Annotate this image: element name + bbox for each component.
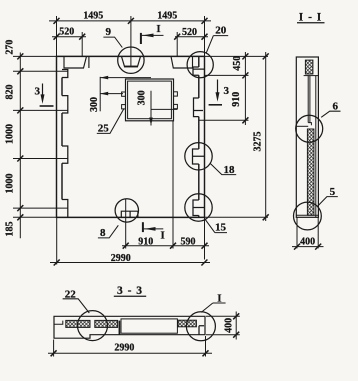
svg-text:8: 8 xyxy=(100,227,106,239)
svg-text:3275: 3275 xyxy=(252,132,263,152)
svg-text:I: I xyxy=(217,292,221,304)
svg-text:15: 15 xyxy=(215,222,227,234)
svg-text:2990: 2990 xyxy=(111,253,131,264)
svg-text:270: 270 xyxy=(5,40,16,55)
svg-text:400: 400 xyxy=(300,237,315,248)
svg-text:2990: 2990 xyxy=(114,343,134,354)
svg-text:I: I xyxy=(156,23,160,35)
svg-text:1495: 1495 xyxy=(83,10,103,21)
svg-text:300: 300 xyxy=(137,90,148,105)
svg-text:6: 6 xyxy=(332,100,338,112)
svg-text:520: 520 xyxy=(182,27,197,38)
svg-text:I - I: I - I xyxy=(299,12,323,24)
svg-text:185: 185 xyxy=(5,222,16,237)
svg-text:1000: 1000 xyxy=(5,124,16,144)
svg-text:520: 520 xyxy=(59,26,74,37)
svg-text:22: 22 xyxy=(65,288,77,300)
svg-text:18: 18 xyxy=(224,164,236,176)
svg-text:3: 3 xyxy=(224,85,230,97)
svg-text:25: 25 xyxy=(98,122,110,134)
svg-text:450: 450 xyxy=(232,56,243,71)
svg-text:1000: 1000 xyxy=(5,174,16,194)
svg-text:I: I xyxy=(160,229,164,241)
svg-text:910: 910 xyxy=(231,92,242,107)
svg-text:9: 9 xyxy=(105,26,111,38)
svg-text:400: 400 xyxy=(223,318,234,333)
svg-text:1495: 1495 xyxy=(157,10,177,21)
svg-text:300: 300 xyxy=(89,97,100,112)
svg-text:3 - 3: 3 - 3 xyxy=(117,285,143,297)
svg-text:820: 820 xyxy=(5,85,16,100)
svg-text:3: 3 xyxy=(35,86,41,98)
svg-text:20: 20 xyxy=(215,25,227,37)
svg-text:910: 910 xyxy=(138,236,153,247)
svg-text:5: 5 xyxy=(330,186,336,198)
svg-text:590: 590 xyxy=(181,236,196,247)
